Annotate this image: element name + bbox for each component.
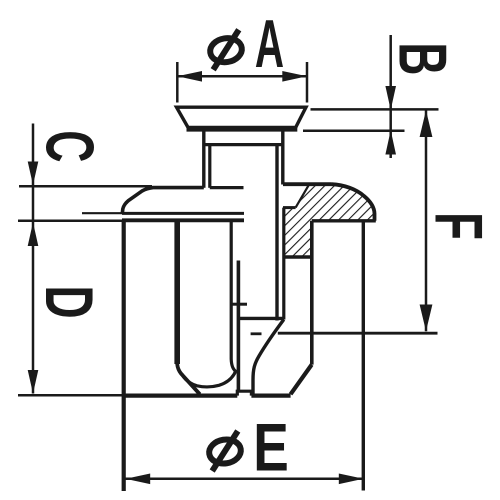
section column bottom	[283, 255, 312, 258]
pin shaft inner left wall	[208, 145, 211, 188]
pin bottom notch	[237, 391, 251, 395]
dim D arrow lower	[28, 370, 39, 394]
dim C extension mid short	[82, 212, 122, 214]
pin tip shoulder	[231, 303, 247, 306]
pin barb notch diagonal	[296, 185, 309, 207]
dim A extension left	[176, 62, 179, 103]
dim A extension right	[306, 62, 309, 103]
cavity left bottom corner chamfer	[177, 361, 200, 394]
svg-text:E: E	[253, 409, 289, 485]
grommet flange left dome	[122, 188, 204, 214]
label phi (A)	[208, 30, 243, 70]
pin tip bottom arc	[182, 371, 237, 387]
dim F line	[425, 110, 428, 331]
cavity left wall	[174, 222, 180, 364]
pin neck right wall	[281, 129, 284, 185]
flange underside line 1	[122, 212, 244, 215]
dim A arrow left	[177, 71, 202, 82]
dim B arrow upper	[385, 86, 396, 110]
dim F arrow lower	[420, 305, 433, 332]
flange top mid segment	[210, 186, 244, 189]
pin neck left wall	[202, 129, 205, 188]
pin head underside	[187, 127, 298, 132]
label phi (E)	[207, 431, 242, 471]
svg-text:B: B	[384, 42, 460, 75]
dim F arrow upper	[420, 110, 433, 137]
seat line / F extension	[278, 332, 438, 335]
pin barb notch bottom	[283, 206, 296, 209]
body bottom edge left	[124, 394, 237, 398]
hatched flange cross-section fill	[283, 184, 375, 257]
svg-text:F: F	[420, 212, 495, 240]
dim B extension upper / F top extension	[311, 108, 439, 111]
section column left edge / pin outer right wall	[282, 208, 285, 320]
dim A line	[177, 75, 307, 78]
inner step line	[238, 317, 284, 320]
svg-text:D: D	[31, 285, 107, 318]
pin tip right wall	[237, 261, 241, 391]
flange right underside	[312, 219, 376, 222]
section column right edge	[310, 221, 314, 365]
dim C arrow upper	[28, 162, 39, 186]
dim C/D arrow middle	[28, 222, 39, 246]
svg-text:C: C	[31, 130, 107, 162]
body outer right wall	[362, 221, 365, 491]
pin tip left wall	[231, 221, 236, 372]
dim E arrow left	[126, 474, 151, 485]
body outer left wall	[122, 221, 126, 491]
dim C/D line	[32, 124, 35, 394]
flange right dome	[332, 184, 375, 221]
dim E arrow right	[339, 474, 364, 485]
dim C extension lower	[18, 220, 122, 223]
svg-text:A: A	[255, 5, 284, 82]
dim E line	[126, 478, 364, 481]
dim B line	[389, 35, 392, 158]
dim D extension bottom	[18, 394, 124, 397]
pin head (trapezoid)	[177, 107, 307, 127]
flange underside line 2	[122, 218, 244, 222]
flange right plateau (section)	[283, 182, 332, 186]
pin collar step	[204, 143, 283, 146]
pin shaft right wall	[275, 145, 278, 321]
dim C extension upper	[19, 185, 152, 188]
body bottom edge right	[251, 394, 290, 398]
bottom right chamfer	[291, 365, 312, 395]
seat line left stub	[251, 332, 262, 335]
dim A arrow right	[282, 71, 307, 82]
dim B arrow lower	[385, 130, 396, 154]
flex leg curve	[253, 320, 284, 396]
dim B extension lower	[303, 130, 405, 133]
